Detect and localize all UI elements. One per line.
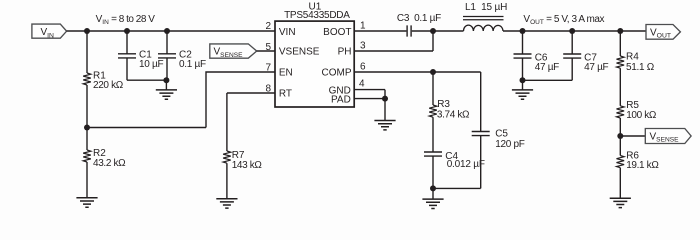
junction node VIN/R1 — [84, 28, 90, 34]
svg-text:143 kΩ: 143 kΩ — [232, 160, 263, 171]
net tag VOUT — [646, 25, 680, 40]
svg-text:4: 4 — [359, 79, 365, 90]
svg-text:51.1 Ω: 51.1 Ω — [626, 62, 655, 73]
capacitor C6 — [522, 31, 524, 54]
junction node C2 — [164, 28, 170, 34]
wire R4 top — [619, 31, 621, 56]
junction node EN divider — [84, 125, 90, 131]
wire PH to switch node — [354, 31, 433, 51]
svg-text:8: 8 — [265, 84, 271, 95]
svg-text:220 kΩ: 220 kΩ — [93, 80, 124, 91]
junction node VSENSE feedback — [617, 133, 623, 139]
inductor L1 — [464, 25, 504, 31]
ground output capacitors — [512, 90, 533, 99]
svg-text:5: 5 — [265, 42, 271, 53]
junction node C1/C2 ground — [163, 77, 169, 83]
svg-text:7: 7 — [265, 63, 271, 74]
wire C5 bottom to ground node — [433, 187, 481, 189]
svg-text:47 µF: 47 µF — [584, 62, 608, 73]
svg-text:3: 3 — [360, 41, 366, 52]
net tag VIN input — [32, 24, 67, 38]
resistor R6 — [617, 156, 625, 168]
wire R3 to C4 — [432, 117, 434, 152]
ground R6 — [610, 198, 631, 207]
wire ground stub comp — [432, 188, 434, 199]
wire R3 top — [432, 72, 434, 105]
capacitor C5 — [480, 72, 482, 131]
svg-text:VIN: VIN — [279, 27, 296, 38]
capacitor C7 — [571, 31, 573, 54]
wire R1 top — [86, 31, 88, 73]
wire ground stub output caps — [522, 80, 524, 90]
wire R4 to R5 — [619, 68, 621, 106]
wire R1 bottom to node — [86, 85, 88, 128]
svg-text:EN: EN — [279, 67, 293, 78]
svg-text:BOOT: BOOT — [323, 27, 351, 38]
IC U1 TPS54335DDA box — [275, 21, 354, 107]
wire COMP net — [354, 71, 481, 73]
svg-text:VSENSE: VSENSE — [279, 46, 320, 57]
wire PAD pin — [354, 98, 385, 100]
svg-text:6: 6 — [360, 62, 366, 73]
wire C3 to switch node — [412, 30, 464, 32]
ground IC GND/PAD — [374, 121, 395, 130]
capacitor C2 — [166, 31, 168, 54]
wire BOOT to C3 — [354, 30, 406, 32]
wire RT net — [227, 93, 275, 151]
junction node compensation ground — [430, 185, 436, 191]
net tag VSENSE to pin 5 — [210, 44, 257, 58]
resistor R7 — [223, 151, 231, 163]
svg-text:R3: R3 — [437, 99, 450, 110]
svg-text:43.2 kΩ: 43.2 kΩ — [93, 158, 126, 169]
svg-text:L1 15 µH: L1 15 µH — [465, 2, 507, 13]
wire R7 to ground — [226, 163, 228, 199]
junction node switch/BOOT — [430, 28, 436, 34]
capacitor C4 — [424, 152, 442, 156]
junction node C1 — [124, 28, 130, 34]
svg-text:COMP: COMP — [322, 67, 352, 78]
svg-text:3.74 kΩ: 3.74 kΩ — [437, 109, 470, 120]
svg-text:1: 1 — [360, 21, 366, 32]
net tag VSENSE feedback — [645, 129, 691, 144]
wire VIN rail — [67, 30, 275, 32]
svg-text:PAD: PAD — [331, 94, 351, 105]
junction node COMP/R3 — [430, 69, 436, 75]
svg-text:TPS54335DDA: TPS54335DDA — [284, 10, 350, 21]
svg-text:100 kΩ: 100 kΩ — [626, 110, 657, 121]
wire GND to ground — [384, 99, 386, 121]
wire ground stub input caps — [165, 80, 167, 90]
wire GND pin — [354, 90, 385, 99]
junction node C7 — [569, 28, 575, 34]
wire R5 to node — [619, 118, 621, 136]
wire to VSENSE tag — [620, 135, 645, 137]
svg-text:0.1 µF: 0.1 µF — [179, 59, 206, 70]
wire C1 bottom — [127, 79, 166, 81]
resistor R2 — [83, 150, 91, 162]
svg-text:0.012 µF: 0.012 µF — [447, 159, 485, 170]
svg-text:19.1 kΩ: 19.1 kΩ — [626, 160, 659, 171]
wire output caps bottom — [523, 79, 573, 81]
svg-text:PH: PH — [338, 46, 352, 57]
wire VSENSE tag to pin 5 — [257, 50, 275, 52]
capacitor C3 series — [407, 25, 411, 36]
wire EN net — [87, 72, 275, 128]
junction node GND/PAD — [382, 96, 388, 102]
resistor R5 — [617, 106, 625, 118]
ground input capacitors — [156, 90, 177, 99]
wire R6 to ground — [619, 168, 621, 199]
resistor R4 — [617, 56, 625, 68]
wire R2 to ground — [86, 162, 88, 198]
wire R2 top — [86, 128, 88, 151]
wire VOUT rail — [503, 30, 646, 32]
junction node R4 — [617, 28, 623, 34]
resistor R1 — [83, 73, 91, 85]
wire R6 top — [619, 136, 621, 156]
svg-text:120 pF: 120 pF — [495, 139, 525, 150]
ground R2 — [76, 198, 97, 207]
svg-text:2: 2 — [265, 21, 271, 32]
junction node output ground — [520, 77, 526, 83]
ground compensation network — [422, 199, 443, 208]
ground R7 — [216, 199, 237, 208]
junction node C6 — [520, 28, 526, 34]
capacitor C1 — [126, 31, 128, 54]
svg-text:RT: RT — [279, 88, 292, 99]
svg-text:10 µF: 10 µF — [139, 59, 163, 70]
svg-text:47 µF: 47 µF — [535, 62, 559, 73]
resistor R3 — [429, 105, 437, 117]
svg-text:C3 0.1 µF: C3 0.1 µF — [397, 13, 441, 24]
